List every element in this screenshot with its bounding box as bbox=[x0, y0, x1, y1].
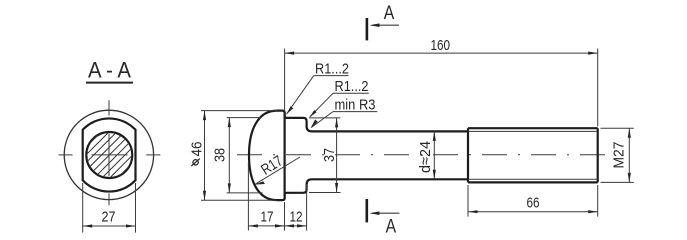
leader R1...2 (fillet under head) bbox=[286, 61, 349, 115]
section title A-A bbox=[86, 58, 133, 83]
svg-text:d≈24: d≈24 bbox=[417, 141, 434, 173]
section plane mark A (bottom) bbox=[367, 199, 400, 237]
leader R1...2 (neck corner fillet) bbox=[309, 78, 369, 117]
front view: bolt outline (head dome, neck, shank) bbox=[249, 111, 468, 201]
section view: sub-head with flats (cut outline) bbox=[83, 118, 136, 191]
dimension 66 (thread length) bbox=[468, 185, 598, 217]
dimension M27 (thread) bbox=[601, 128, 634, 182]
leader min R3 (shank fillet) bbox=[311, 96, 378, 128]
front view: bolt axis centerline bbox=[237, 154, 607, 156]
svg-text:66: 66 bbox=[527, 195, 540, 212]
radius R17 of head dome bbox=[255, 152, 300, 184]
svg-text:R1...2: R1...2 bbox=[335, 78, 369, 95]
svg-text:12: 12 bbox=[290, 209, 303, 226]
dimension 37 (neck diameter) bbox=[309, 118, 341, 193]
section view: vertical centerline bbox=[108, 100, 110, 205]
svg-text:38: 38 bbox=[212, 148, 229, 162]
svg-text:M27: M27 bbox=[611, 142, 628, 169]
svg-text:R1...2: R1...2 bbox=[315, 61, 349, 78]
svg-text:A: A bbox=[386, 216, 397, 237]
section view: head outer circle (projected) bbox=[64, 110, 153, 199]
dimension phi46 (head diameter) bbox=[188, 111, 277, 201]
svg-text:46: 46 bbox=[188, 142, 205, 157]
dimension 38 (spherical bearing diameter) bbox=[212, 118, 263, 193]
dimension d~24 (shank diameter) bbox=[417, 131, 436, 179]
dimension 160 (bolt length) bbox=[285, 37, 598, 127]
svg-text:A: A bbox=[384, 3, 395, 24]
front view: thread major diameter and end bbox=[468, 128, 598, 182]
svg-text:min R3: min R3 bbox=[335, 96, 376, 113]
svg-text:27: 27 bbox=[102, 209, 116, 226]
front view: head bearing face / neck junction line bbox=[284, 112, 286, 199]
svg-text:A - A: A - A bbox=[88, 58, 131, 83]
front view: thread minor diameter (thin) bbox=[468, 131, 597, 179]
svg-text:17: 17 bbox=[261, 209, 274, 226]
svg-text:160: 160 bbox=[431, 37, 451, 54]
section view: shank circle (hatched, cut) bbox=[43, 120, 175, 190]
dimension 27 (across flats) bbox=[83, 183, 136, 233]
section view: horizontal centerline bbox=[59, 154, 161, 156]
svg-text:37: 37 bbox=[321, 148, 338, 162]
dimensions 17 and 12 (head and neck lengths) bbox=[248, 162, 306, 231]
section plane mark A (top) bbox=[367, 3, 399, 41]
